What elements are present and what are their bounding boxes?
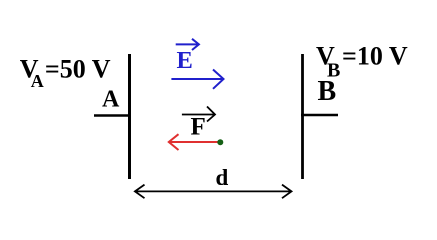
svg-text:d: d	[216, 165, 229, 190]
plate A vertical line	[128, 54, 131, 179]
vector arrow over E	[176, 39, 199, 50]
svg-text:=10 V: =10 V	[342, 41, 408, 70]
electric field arrow (blue)	[171, 70, 223, 89]
force arrow (red, pointing left)	[169, 134, 220, 150]
distance arrow d (double-headed)	[135, 185, 292, 199]
svg-text:E: E	[177, 47, 193, 74]
vector arrow over F	[182, 107, 215, 122]
plate B vertical line	[301, 54, 304, 179]
svg-text:F: F	[191, 114, 206, 141]
svg-text:=50 V: =50 V	[45, 54, 111, 83]
svg-text:A: A	[102, 86, 120, 112]
plate B lead (horizontal tick)	[301, 114, 338, 117]
svg-text:A: A	[31, 71, 44, 91]
svg-text:B: B	[318, 76, 337, 107]
plate A lead (horizontal tick)	[94, 114, 131, 117]
charge (green dot)	[217, 139, 223, 145]
